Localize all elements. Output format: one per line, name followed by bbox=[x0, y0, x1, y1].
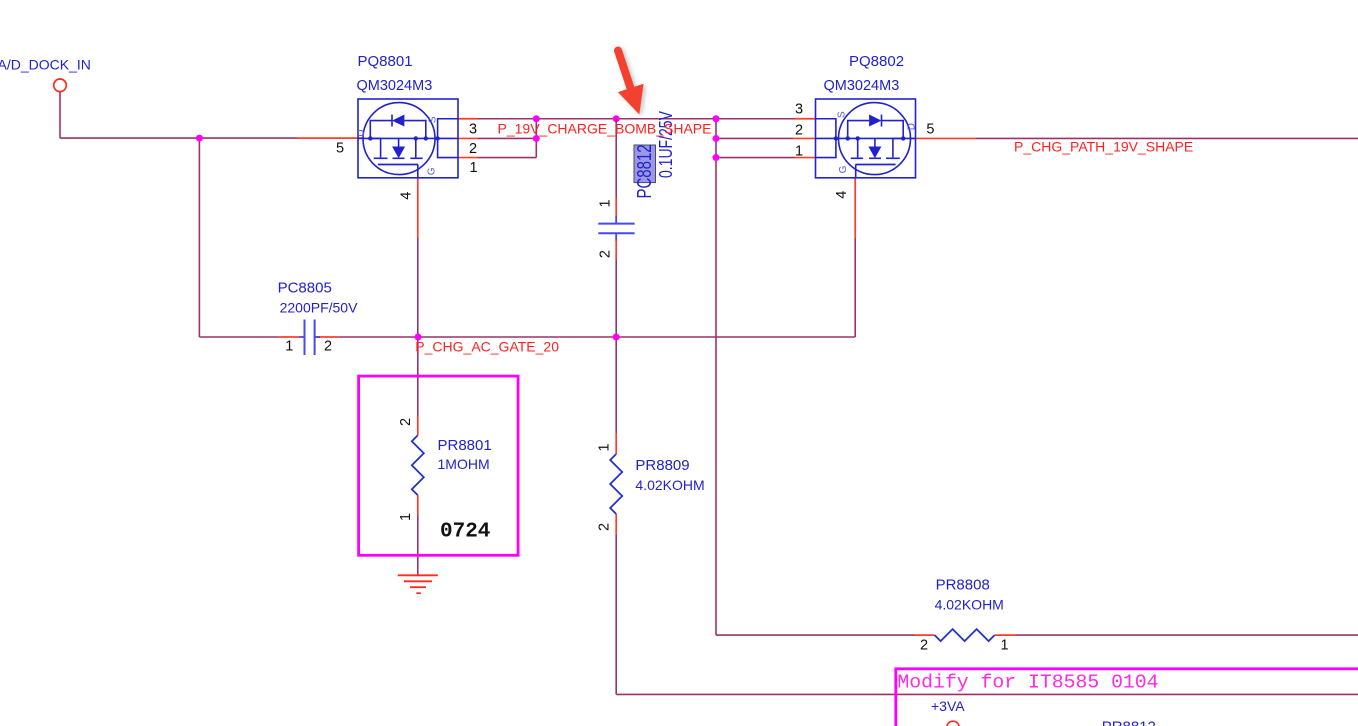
svg-text:4.02KOHM: 4.02KOHM bbox=[935, 597, 1004, 613]
resistor PR8809 zigzag bbox=[610, 454, 622, 514]
svg-text:4: 4 bbox=[398, 192, 414, 200]
svg-text:2: 2 bbox=[795, 123, 803, 139]
wire PR8808 right horizontal to edge bbox=[1016, 634, 1358, 636]
pin stub PR8808 pin1 bbox=[995, 634, 1016, 636]
svg-text:P_19V_CHARGE_BOMB_SHAPE: P_19V_CHARGE_BOMB_SHAPE bbox=[498, 121, 712, 137]
port connector circle A/D_DOCK_IN bbox=[54, 79, 67, 92]
junction dot at (199,138) bbox=[196, 135, 203, 142]
pin stub PR8801 pin1 bbox=[417, 495, 419, 514]
wire PR8801 lower to ground bbox=[417, 514, 419, 574]
wire net P_CHG_AC_GATE_20 horizontal left part bbox=[199, 336, 278, 338]
pin stub PC8805 pin2 bbox=[315, 336, 338, 338]
svg-text:1: 1 bbox=[470, 160, 478, 176]
wire vertical bus at x716 from top net down to PR8808 wire bbox=[715, 119, 717, 635]
svg-text:A/D_DOCK_IN: A/D_DOCK_IN bbox=[0, 57, 91, 73]
svg-text:5: 5 bbox=[926, 122, 934, 138]
capacitor PC8812 refdes highlight box bbox=[634, 145, 656, 183]
capacitor PC8805 lead stubs bbox=[299, 336, 320, 338]
pin stub PQ8802 pin2 bbox=[793, 137, 816, 139]
svg-text:2: 2 bbox=[597, 250, 613, 258]
svg-text:3: 3 bbox=[469, 122, 477, 138]
svg-text:1: 1 bbox=[285, 338, 293, 354]
svg-text:D: D bbox=[356, 130, 367, 137]
svg-text:1: 1 bbox=[597, 199, 613, 207]
wire PQ8802 pin1 horizontal bbox=[716, 157, 795, 159]
svg-text:QM3024M3: QM3024M3 bbox=[357, 78, 433, 94]
svg-text:+3VA: +3VA bbox=[931, 698, 965, 714]
svg-text:1MOHM: 1MOHM bbox=[438, 456, 490, 472]
capacitor PC8812 plates bbox=[598, 224, 634, 234]
power connector circle +3VA bbox=[947, 721, 960, 726]
svg-text:D: D bbox=[906, 123, 917, 130]
svg-text:2: 2 bbox=[324, 338, 332, 354]
wire vertical link pins 1-2-3 at x536 bbox=[535, 119, 537, 158]
junction dot (536,138) bbox=[533, 135, 540, 142]
pin stub PQ8802 pin5 bbox=[909, 137, 976, 139]
pin stub PQ8801 pin3 bbox=[458, 118, 478, 120]
svg-text:PR8809: PR8809 bbox=[635, 457, 689, 474]
pin stub PR8809 pin2 bbox=[615, 514, 617, 534]
annotation red arrow bbox=[618, 51, 644, 115]
svg-text:1: 1 bbox=[1001, 637, 1009, 653]
wire PQ8801 pin4 vertical to AC gate net bbox=[417, 238, 419, 416]
junction dot (616,119) bbox=[613, 115, 620, 122]
annotation box around PR8801 bbox=[359, 376, 518, 555]
svg-text:G: G bbox=[427, 167, 438, 175]
svg-text:QM3024M3: QM3024M3 bbox=[824, 78, 900, 94]
transistor PQ8802 (dual MOSFET QM3024M3, mirrored) bbox=[816, 99, 916, 178]
wire net P_19V_CHARGE_BOMB_SHAPE top horizontal bbox=[478, 118, 796, 120]
capacitor PC8805 plates bbox=[305, 320, 315, 356]
wire net P_CHG_PATH_19V_SHAPE to right edge bbox=[976, 137, 1358, 139]
svg-text:2: 2 bbox=[469, 141, 477, 157]
svg-text:2: 2 bbox=[920, 637, 928, 653]
svg-text:1: 1 bbox=[597, 443, 613, 451]
svg-text:1: 1 bbox=[398, 513, 414, 521]
svg-text:0724: 0724 bbox=[440, 521, 490, 544]
ground symbol below PR8801 bbox=[398, 575, 438, 593]
pin stub PR8809 pin1 bbox=[615, 434, 617, 454]
wire PQ8801 pin2 horizontal bbox=[478, 137, 537, 139]
pin stub PR8801 pin2 bbox=[417, 416, 419, 436]
wire dock vertical bbox=[59, 92, 61, 138]
junction dot (616,335) bbox=[613, 334, 620, 341]
svg-text:3: 3 bbox=[795, 102, 803, 118]
wire PQ8801 pin1 horizontal bbox=[478, 157, 537, 159]
annotation box Modify for IT8585 bbox=[896, 669, 1358, 726]
svg-text:PR8801: PR8801 bbox=[438, 437, 492, 454]
svg-text:S: S bbox=[837, 111, 848, 118]
svg-text:PC8805: PC8805 bbox=[278, 279, 332, 296]
resistor PR8808 zigzag bbox=[935, 629, 995, 641]
junction dot (716,119) bbox=[713, 115, 720, 122]
pin stub PQ8801 pin4 bbox=[417, 178, 419, 238]
junction dot (536,119) bbox=[533, 115, 540, 122]
junction dot (716,158) bbox=[713, 154, 720, 161]
pin stub PQ8801 pin5 bbox=[298, 137, 365, 139]
svg-text:PQ8802: PQ8802 bbox=[849, 53, 904, 70]
pin stub PR8808 pin2 bbox=[915, 634, 934, 636]
junction dot (716,138) bbox=[713, 135, 720, 142]
wire bottom horizontal to right edge bbox=[616, 693, 1358, 695]
svg-text:2: 2 bbox=[398, 418, 414, 426]
pin stub PC8812 pin1 bbox=[615, 198, 617, 224]
wire PQ8802 pin4 vertical bbox=[854, 238, 856, 337]
svg-text:P_CHG_PATH_19V_SHAPE: P_CHG_PATH_19V_SHAPE bbox=[1014, 139, 1193, 155]
wire PC8812 upper vertical bbox=[615, 119, 617, 198]
svg-text:Modify for IT8585 0104: Modify for IT8585 0104 bbox=[897, 672, 1158, 694]
pin stub PQ8802 pin4 bbox=[854, 178, 856, 238]
pin stub PQ8801 pin2 bbox=[458, 137, 478, 139]
svg-text:4: 4 bbox=[834, 191, 850, 199]
resistor PR8801 zigzag bbox=[412, 435, 424, 495]
wire PR8808 left horizontal bbox=[716, 634, 915, 636]
transistor PQ8801 (dual MOSFET QM3024M3) bbox=[358, 99, 458, 178]
svg-text:G: G bbox=[838, 165, 849, 173]
pin stub PQ8802 pin1 bbox=[795, 157, 816, 159]
svg-text:PR8808: PR8808 bbox=[936, 577, 990, 594]
svg-text:2200PF/50V: 2200PF/50V bbox=[280, 300, 358, 316]
pin stub PC8812 pin2 bbox=[615, 234, 617, 260]
wire PQ8802 pin2 horizontal bbox=[716, 137, 793, 139]
svg-text:P_CHG_AC_GATE_20: P_CHG_AC_GATE_20 bbox=[415, 338, 559, 354]
wire PC8812 lower vertical to AC gate net bbox=[615, 259, 617, 434]
svg-text:PR8812: PR8812 bbox=[1102, 718, 1156, 726]
pin stub PC8805 pin1 bbox=[279, 336, 300, 338]
svg-text:5: 5 bbox=[336, 141, 344, 157]
pin stub PQ8801 pin1 bbox=[458, 157, 478, 159]
wire dock horizontal to PQ8801 pin5 bbox=[60, 137, 298, 139]
wire PR8809 lower vertical bbox=[615, 534, 617, 695]
svg-text:PC8812: PC8812 bbox=[633, 144, 656, 198]
svg-text:PQ8801: PQ8801 bbox=[358, 53, 413, 70]
capacitor PC8812 lead stubs bbox=[615, 216, 617, 241]
svg-text:2: 2 bbox=[597, 523, 613, 531]
wire net P_CHG_AC_GATE_20 horizontal right part bbox=[338, 336, 855, 338]
svg-text:S: S bbox=[427, 116, 438, 123]
svg-text:1: 1 bbox=[795, 144, 803, 160]
junction dot (417,335) bbox=[415, 334, 422, 341]
wire vertical from junction x199 down to AC gate net bbox=[198, 138, 200, 337]
pin stub PQ8802 pin3 bbox=[795, 118, 816, 120]
svg-text:4.02KOHM: 4.02KOHM bbox=[635, 477, 704, 493]
